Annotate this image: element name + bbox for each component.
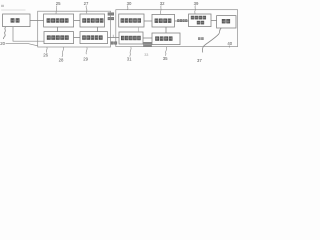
svg-text:32: 32 [160,1,165,6]
svg-text:35: 35 [163,56,168,61]
svg-text:28: 28 [59,57,64,62]
svg-text:31: 31 [127,57,132,62]
svg-text:29: 29 [83,57,88,62]
svg-text:26: 26 [43,53,48,58]
svg-text:20: 20 [0,41,5,46]
svg-text:37: 37 [197,58,202,63]
svg-text:25: 25 [56,1,61,6]
svg-text:27: 27 [84,1,89,6]
svg-text:40: 40 [227,41,232,46]
svg-text:39: 39 [194,1,199,6]
svg-text:30: 30 [127,1,132,6]
svg-text:33: 33 [144,53,148,57]
